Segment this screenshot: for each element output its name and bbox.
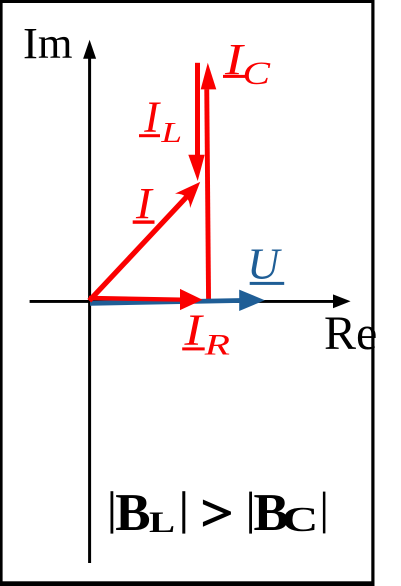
label I_C (red) with underline xyxy=(223,34,271,92)
phasor I_C (red vertical up) xyxy=(201,63,217,299)
svg-text:L: L xyxy=(149,505,175,539)
svg-text:C: C xyxy=(282,500,319,539)
svg-text:U: U xyxy=(247,238,282,288)
label I (red) with underline xyxy=(133,178,155,227)
svg-text:I: I xyxy=(135,178,155,227)
phasor I_L (red vertical down) xyxy=(188,63,204,181)
svg-text:Im: Im xyxy=(23,18,72,68)
label I_R (red) with underline xyxy=(182,306,230,361)
phasor I_R (red horizontal) xyxy=(89,289,203,310)
frame bottom border xyxy=(0,581,375,586)
frame top border xyxy=(0,0,375,3)
frame right border xyxy=(371,0,374,586)
svg-text:Re: Re xyxy=(324,307,377,360)
svg-text:B: B xyxy=(115,484,150,542)
svg-text:C: C xyxy=(243,56,272,92)
label I_L (red) with underline xyxy=(139,91,182,149)
Re axis (horizontal) xyxy=(30,294,351,308)
frame left border xyxy=(0,0,3,586)
caption |B_L| > |B_C| xyxy=(111,484,326,542)
svg-text:>: > xyxy=(201,485,234,541)
svg-text:R: R xyxy=(204,328,230,361)
svg-text:L: L xyxy=(160,117,182,149)
svg-text:I: I xyxy=(143,91,161,141)
label U (blue) with underline xyxy=(247,238,284,288)
phasor U (blue) xyxy=(90,290,265,311)
phasor I (red diagonal) xyxy=(87,175,207,303)
Im axis (vertical) xyxy=(83,40,96,563)
